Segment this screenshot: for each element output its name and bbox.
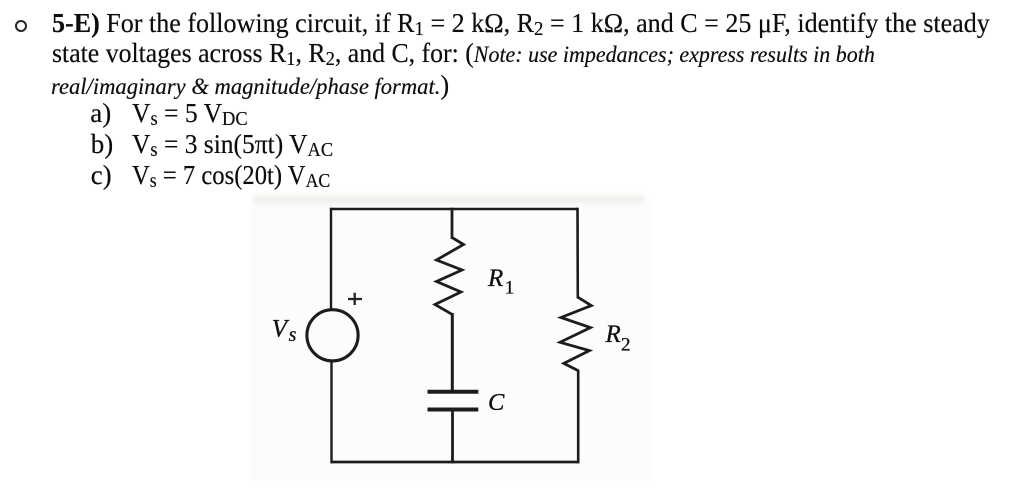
svg-text:s: s	[289, 324, 297, 346]
svg-text:R: R	[487, 265, 503, 292]
wire top	[331, 208, 578, 211]
svg-text:2: 2	[621, 335, 631, 356]
wire right lower	[577, 370, 580, 463]
capacitor C top plate	[428, 390, 479, 394]
resistor R1	[435, 238, 464, 315]
wire bottom	[331, 461, 579, 464]
text line 1	[52, 10, 990, 37]
text line 2	[52, 40, 875, 68]
svg-text:C: C	[488, 389, 505, 416]
text line 4	[90, 100, 111, 127]
bullet	[15, 20, 27, 32]
wire middle between R1 and C	[451, 313, 454, 391]
wire right upper	[576, 208, 579, 299]
wire middle upper	[451, 208, 454, 239]
wire left lower	[330, 360, 332, 463]
capacitor C bottom plate	[428, 408, 479, 412]
svg-text:R: R	[605, 321, 621, 348]
wire left upper	[330, 208, 332, 311]
voltage source VS	[307, 310, 358, 361]
text line 6	[91, 162, 112, 189]
text line 5	[91, 131, 114, 158]
resistor R2	[560, 297, 591, 370]
wire middle lower	[451, 410, 454, 464]
plus polarity mark	[348, 293, 362, 305]
text line 3	[51, 72, 449, 100]
svg-text:1: 1	[505, 278, 515, 299]
circuit figure	[230, 185, 790, 490]
